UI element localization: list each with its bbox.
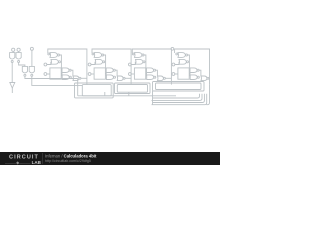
bus loop B outer [115, 83, 151, 94]
nand gate L1 (vertical) [10, 53, 15, 60]
xor gate B4 [179, 59, 186, 64]
input terminal node A4 [172, 63, 175, 66]
wire T1 stem [12, 51, 14, 52]
carry-in terminal of block 4 [171, 47, 174, 50]
gate L2 output bubble [18, 61, 20, 63]
bus drop wire S0 [77, 79, 79, 96]
inverter (pointing down) [10, 83, 15, 89]
and gate D4 [190, 75, 197, 80]
nand gate L4 (vertical) [29, 66, 34, 73]
bus loop A outer [75, 83, 114, 98]
attribution line 2: url [45, 159, 91, 163]
bus wire Q3 [152, 94, 207, 105]
bus drop wire S3 [152, 91, 154, 105]
and gate C4 [190, 68, 197, 73]
carry out wire 4 [208, 77, 211, 79]
carry chain tail wire [207, 85, 210, 105]
circuitlab logo: LAB row [5, 160, 41, 165]
or gate E4 output bubble [207, 77, 209, 79]
wire nodeA4 to xor B4 [175, 62, 179, 65]
carry loop wire top (block 4) [175, 49, 210, 85]
wire L3 out running right [25, 77, 78, 79]
bus riser S1 [104, 92, 106, 96]
footer divider [42, 153, 43, 164]
input terminal T1 [12, 48, 15, 51]
footer attribution bar [0, 152, 220, 165]
bus mid wire [78, 95, 176, 97]
bus wire Q1 [152, 94, 203, 101]
bus loop B inner [117, 85, 147, 93]
input terminal T3 [30, 47, 33, 50]
gate L3 output bubble [24, 74, 26, 76]
bus wire Q2 [153, 94, 204, 103]
wire L2 out to gate L3 [19, 63, 25, 67]
wire L4 out running right [32, 77, 83, 86]
gate L1 output bubble [11, 61, 13, 63]
schematic canvas [0, 0, 220, 165]
register box 4 [178, 68, 189, 79]
wire T3 down to gate L4 [31, 50, 33, 66]
bus wire Q0 [153, 94, 200, 98]
bus loop A inner [82, 85, 111, 96]
gate L4 output bubble [31, 74, 33, 76]
and gate D4 output bubble [197, 76, 199, 78]
attribution line 1 [45, 154, 96, 159]
circuitlab logo: CIRCUIT [9, 154, 39, 160]
xor gate A4 input bubble [176, 53, 178, 55]
bus loop C inner [156, 83, 202, 90]
input terminal node B4 [172, 73, 175, 76]
and gate C4 output bubble [197, 69, 199, 71]
wire andC4 to or gate E4 [199, 70, 201, 76]
xor gate B4 output bubble [187, 61, 189, 63]
input terminal T2 [17, 48, 20, 51]
bus loop C outer [153, 82, 205, 92]
wire xorA4 to and gate C4 [188, 55, 190, 68]
or gate E4 [201, 76, 207, 81]
wire T2 stem [18, 51, 20, 52]
nand gate L3 (vertical) [22, 66, 27, 73]
xor gate A4 output bubble [186, 54, 188, 56]
nand gate L2 (vertical) [16, 53, 21, 60]
inverter output wire [11, 88, 13, 93]
bus riser S2 [128, 92, 130, 96]
wire L1 out down to inverter [11, 63, 13, 83]
wire box4 to and gate D4 [188, 74, 191, 77]
wire nodeB4 to register box 4 [175, 73, 178, 75]
xor gate A4 [178, 53, 185, 58]
